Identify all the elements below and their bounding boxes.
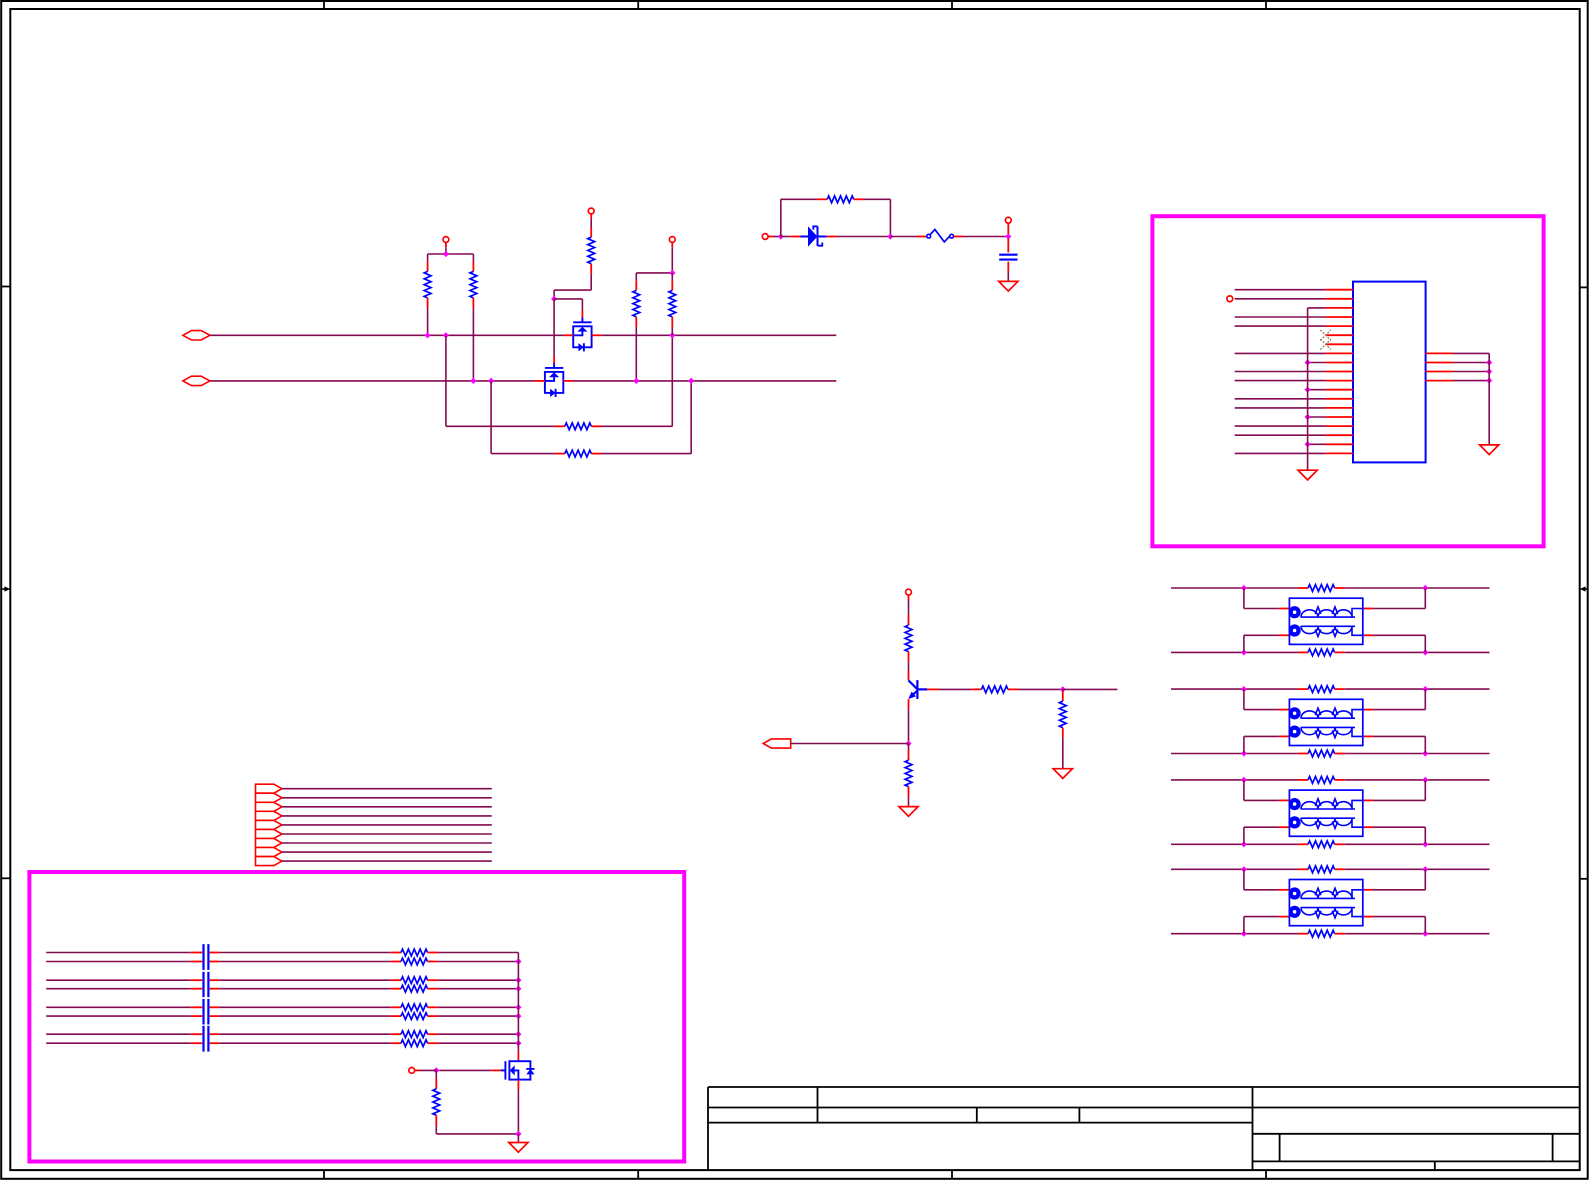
node choke1 TR <box>1422 585 1428 591</box>
power pin J4 <box>409 1068 415 1074</box>
pin 8 <box>1326 352 1353 354</box>
gnd bus vertical <box>1307 308 1309 470</box>
power pin VCC3 <box>669 237 675 243</box>
capacitor C8 leads <box>191 1033 202 1035</box>
wire R3 top lead <box>635 273 637 280</box>
wire to Rc <box>908 600 910 615</box>
pin 3 <box>1326 307 1353 309</box>
resistor RW7 <box>391 1033 401 1035</box>
resistor RW4 <box>391 988 401 990</box>
wire pin 14 <box>1235 407 1326 409</box>
wire H6 <box>282 833 492 835</box>
wire choke2 right top branch <box>1363 709 1373 711</box>
wire zener to node2 <box>837 236 891 238</box>
wire bypass A bottom right <box>602 425 673 427</box>
inductor T2 body <box>1289 699 1362 745</box>
resistor choke4 bottom <box>1298 933 1308 935</box>
inductor T4 bottom winding <box>1289 913 1295 916</box>
wire Rg to source line <box>435 1126 437 1134</box>
wire W8 middle <box>219 1042 391 1044</box>
ground G4 <box>899 807 918 817</box>
resistor choke2 top <box>1298 688 1308 690</box>
pin 2 <box>1326 298 1353 300</box>
wire R1 top lead <box>427 254 429 261</box>
wire choke1 right top branch <box>1363 608 1373 610</box>
wire pin 8 <box>1235 352 1326 354</box>
wire pin 12 to gnd bus <box>1308 389 1326 391</box>
wire choke2 left top branch <box>1243 689 1245 710</box>
node emitter <box>905 740 911 746</box>
wire W6 right <box>438 1015 519 1017</box>
pin R4 <box>1426 380 1453 382</box>
node choke3 TR <box>1422 777 1428 783</box>
wire R3 bottom lead <box>635 327 637 381</box>
inductor T3 body <box>1289 790 1362 836</box>
node choke1 TL <box>1241 585 1247 591</box>
wire node right <box>1063 688 1118 690</box>
resistor RW8 <box>391 1042 401 1044</box>
wire pin 9 to gnd bus <box>1308 362 1326 364</box>
node W3 <box>515 977 521 983</box>
capacitor pair 3 plates <box>202 999 204 1025</box>
wire Rc to collector <box>908 662 910 671</box>
pin 4 <box>1326 316 1353 318</box>
wire gate to Q1 <box>554 298 582 300</box>
node W7 <box>515 1031 521 1037</box>
node bypassA left <box>443 332 449 338</box>
wire R5 top <box>590 219 592 227</box>
wire Rb to node <box>1018 688 1063 690</box>
wire pin 2 <box>1235 298 1326 300</box>
resistor Rc <box>908 615 910 625</box>
node bypassA right <box>669 332 675 338</box>
wire emitter <box>908 699 910 709</box>
wire bus1 right segment <box>601 334 836 336</box>
wire pullup rail 2 <box>636 272 672 274</box>
wire VCC1 stub <box>445 247 447 254</box>
node choke2 BR <box>1422 750 1428 756</box>
node choke1 BL <box>1241 649 1247 655</box>
pin 6 (NC) <box>1326 334 1353 336</box>
node W2 <box>515 958 521 964</box>
wire R2 bottom lead <box>472 308 474 381</box>
node choke2 TL <box>1241 686 1247 692</box>
capacitor C5 leads <box>191 988 202 990</box>
resistor Rb <box>971 688 981 690</box>
wire W5 right <box>438 1006 519 1008</box>
ground G5 <box>1053 769 1072 779</box>
transistor Q1 <box>573 318 591 352</box>
wire W2 left <box>46 961 191 963</box>
wire choke3 left top branch <box>1243 780 1245 801</box>
port H4 <box>256 811 282 820</box>
ground G6 <box>509 1143 528 1153</box>
wire pin 5 <box>1235 325 1326 327</box>
resistor choke2 bottom <box>1298 753 1308 755</box>
resistor RW3 <box>391 979 401 981</box>
resistor R5 <box>590 227 592 237</box>
wire W3 left <box>46 979 191 981</box>
wire W1 left <box>46 952 191 954</box>
resistor R7 (bypass A) <box>555 425 565 427</box>
wire node down <box>435 1070 437 1078</box>
wire emitter to Re <box>908 744 910 751</box>
zone tick left lower <box>1 877 10 879</box>
wire choke3 right bottom branch <box>1363 826 1373 828</box>
port H3 <box>256 802 282 811</box>
power pin J1 <box>762 234 768 240</box>
zone tick bottom 1 <box>323 1170 325 1179</box>
capacitor pair 1 plates <box>202 944 204 970</box>
port H2 <box>256 793 282 802</box>
transistor Q2 <box>545 363 563 397</box>
wire Re to ground <box>908 797 910 807</box>
pin 17 <box>1326 434 1353 436</box>
node rail1 <box>443 251 449 257</box>
wire source to ground <box>517 1134 519 1143</box>
node Z3 <box>1005 233 1011 239</box>
wire choke2 top line <box>1171 688 1298 690</box>
pin 2 input circle <box>1227 296 1233 302</box>
inductor T1 top winding <box>1289 609 1295 612</box>
zone tick top 2 <box>637 1 639 9</box>
resistor choke1 bottom <box>1298 651 1308 653</box>
node choke2 TR <box>1422 686 1428 692</box>
ground G2 <box>1298 470 1317 480</box>
wire pin 18 to gnd bus <box>1308 443 1326 445</box>
capacitor C9 leads <box>191 1042 202 1044</box>
wire bypass A right vertical <box>671 335 673 426</box>
wire W6 middle <box>219 1015 391 1017</box>
node choke4 TR <box>1422 866 1428 872</box>
pin 11 <box>1326 380 1353 382</box>
resistor R6 <box>817 198 827 200</box>
wire W3 middle <box>219 979 391 981</box>
node choke1 BR <box>1422 649 1428 655</box>
zone arrow left <box>1 588 5 590</box>
resistor choke3 top <box>1298 779 1308 781</box>
resistor RW2 <box>391 961 401 963</box>
wire W4 middle <box>219 988 391 990</box>
node choke3 BR <box>1422 841 1428 847</box>
pin 10 <box>1326 371 1353 373</box>
wire C1 to ground <box>1007 271 1009 281</box>
port H5 <box>256 820 282 829</box>
wire choke3 top line <box>1171 779 1298 781</box>
wire pin 10 <box>1235 371 1326 373</box>
wire node1 to zener <box>781 236 790 238</box>
wire pin R3 <box>1453 371 1489 373</box>
wire choke3 right top branch <box>1363 799 1373 801</box>
wire bypass A left vertical <box>445 335 447 426</box>
inductor T4 top winding <box>1289 890 1295 893</box>
inductor T1 bottom winding <box>1289 632 1295 635</box>
wire pin 4 <box>1235 316 1326 318</box>
wire gate <box>439 1069 491 1071</box>
wire W7 left <box>46 1033 191 1035</box>
power pin J3 <box>906 589 912 595</box>
pin 14 <box>1326 407 1353 409</box>
IC U1 body <box>1353 282 1426 463</box>
wire pin 19 <box>1235 452 1326 454</box>
node W4 <box>515 986 521 992</box>
wire W4 left <box>46 988 191 990</box>
pin 13 <box>1326 398 1353 400</box>
wire choke2 left bottom branch <box>1243 736 1245 753</box>
gate stub Q3 <box>491 1069 500 1071</box>
zone tick top 4 <box>1265 1 1267 9</box>
wire W2 middle <box>219 961 391 963</box>
zone tick right upper <box>1580 286 1588 288</box>
wire pin 17 <box>1235 434 1326 436</box>
wire node down <box>1062 689 1064 691</box>
wire bypass A bottom left <box>446 425 555 427</box>
resistor Re <box>908 750 910 760</box>
wire choke1 bottom line <box>1171 651 1298 653</box>
resistor RW5 <box>391 1006 401 1008</box>
wire W8 left <box>46 1042 191 1044</box>
magenta box top right <box>1152 216 1543 546</box>
wire bus2 right segment <box>574 380 837 382</box>
zone tick right lower <box>1580 878 1588 880</box>
inductor T4 body <box>1289 880 1362 926</box>
inductor T3 bottom winding <box>1289 824 1295 827</box>
capacitor pair 2 plates <box>202 972 204 997</box>
wire choke4 left bottom branch <box>1243 917 1245 934</box>
wire bypass B right vertical <box>690 381 692 454</box>
pin 15 <box>1326 416 1353 418</box>
wire choke4 left top branch <box>1243 869 1245 890</box>
wire pin R1 <box>1453 352 1489 354</box>
wire R4 top lead <box>671 273 673 280</box>
wire pin R4 <box>1453 380 1489 382</box>
node choke4 BL <box>1241 931 1247 937</box>
resistor choke1 top <box>1298 587 1308 589</box>
ground G1 <box>999 281 1018 291</box>
wire node2 to fuse <box>890 236 916 238</box>
wire R5 bottom to gate node <box>590 274 592 290</box>
wire R2 top lead <box>472 254 474 261</box>
wire W4 right <box>438 988 519 990</box>
capacitor C4 leads <box>191 979 202 981</box>
power pin VCC1 <box>443 237 449 243</box>
node choke2 BL <box>1241 750 1247 756</box>
port P1 (bus1 left) <box>183 331 210 340</box>
wire choke1 left bottom branch <box>1243 635 1245 652</box>
pin 7 (NC) <box>1326 343 1353 345</box>
wire W2 right <box>438 961 519 963</box>
pin R2 <box>1426 362 1453 364</box>
resistor R8 (bypass B) <box>555 453 565 455</box>
port H6 <box>256 829 282 838</box>
wire choke1 right bottom branch <box>1363 634 1373 636</box>
capacitor C3 leads <box>191 961 202 963</box>
wire pin 3 to gnd bus <box>1308 307 1326 309</box>
wire pullup rail 1 <box>428 253 474 255</box>
port H1 <box>256 784 282 793</box>
wire gate to Q2 <box>553 299 555 356</box>
fuse F1 <box>917 236 927 238</box>
zone tick left upper <box>1 286 10 288</box>
zone tick top 1 <box>323 1 325 9</box>
wire W5 middle <box>219 1006 391 1008</box>
inductor T3 top winding <box>1289 800 1295 803</box>
transistor Q3 <box>501 1061 535 1079</box>
wire R4 bottom lead <box>671 327 673 335</box>
wire H7 <box>282 842 492 844</box>
zone arrow right <box>1585 588 1588 590</box>
node gate Q3 <box>433 1067 439 1073</box>
wire bus1 left segment <box>210 334 564 336</box>
wire R1 bottom lead <box>427 308 429 335</box>
diode D1 (zener) <box>790 236 800 238</box>
wire H5 <box>282 824 492 826</box>
resistor R3 <box>635 280 637 290</box>
wire choke2 bottom line <box>1171 753 1298 755</box>
pin R1 <box>1426 352 1453 354</box>
wire pin R2 <box>1453 362 1489 364</box>
power pin VCC2 (R5 top) <box>588 208 594 214</box>
node rail2 <box>669 270 675 276</box>
wire H2 <box>282 797 492 799</box>
resistor RW6 <box>391 1015 401 1017</box>
port H9 <box>256 857 282 866</box>
wire pin 11 <box>1235 380 1326 382</box>
wire choke4 top line <box>1171 868 1298 870</box>
wire choke2 right bottom branch <box>1363 735 1373 737</box>
wire bus2 left segment <box>210 380 535 382</box>
zone tick top 3 <box>951 1 953 9</box>
resistor R2 <box>472 261 474 271</box>
node R3-bus2 <box>633 378 639 384</box>
inductor T1 body <box>1289 598 1362 644</box>
wire rail top right <box>864 198 891 200</box>
wire to node1 <box>773 236 781 238</box>
wire W7 middle <box>219 1033 391 1035</box>
zone tick bottom 2 <box>637 1170 639 1179</box>
node Z2 <box>887 233 893 239</box>
node source <box>515 1131 521 1137</box>
inductor T2 bottom winding <box>1289 733 1295 736</box>
wire W7 right <box>438 1033 519 1035</box>
wire choke1 top line <box>1171 587 1298 589</box>
wire pin 1 <box>1235 289 1326 291</box>
wire W6 left <box>46 1015 191 1017</box>
wire right gnd vertical <box>1488 353 1490 445</box>
capacitor C1 <box>1007 239 1009 253</box>
node base divider <box>1060 686 1066 692</box>
node gate <box>551 296 557 302</box>
capacitor C6 leads <box>191 1006 202 1008</box>
ground G3 <box>1480 445 1499 455</box>
pin 18 <box>1326 443 1353 445</box>
wire rail up left <box>780 199 782 236</box>
title block <box>708 1087 1580 1170</box>
wire H1 <box>282 788 492 790</box>
pin 19 <box>1326 452 1353 454</box>
port H7 <box>256 839 282 848</box>
base red stub <box>927 688 939 690</box>
wire rail down right <box>889 199 891 236</box>
wire pin 16 <box>1235 425 1326 427</box>
wire H4 <box>282 815 492 817</box>
node Z1 <box>778 233 784 239</box>
port P3 <box>763 739 791 748</box>
node choke4 BR <box>1422 931 1428 937</box>
wire bypass B bottom left <box>491 453 554 455</box>
wire base <box>939 688 972 690</box>
wire choke4 right bottom branch <box>1363 916 1373 918</box>
wire J4 to node <box>420 1069 437 1071</box>
node W5 <box>515 1004 521 1010</box>
zone tick bottom 4 <box>1265 1170 1267 1179</box>
transistor Q4 (NPN) <box>908 671 910 680</box>
wire VCC3 stub <box>671 247 673 273</box>
wire port to emitter <box>791 743 909 745</box>
pin R3 <box>1426 371 1453 373</box>
node bypassB right <box>688 378 694 384</box>
wire H9 <box>282 860 492 862</box>
capacitor C7 leads <box>191 1015 202 1017</box>
resistor R4 <box>671 280 673 290</box>
pin 16 <box>1326 425 1353 427</box>
node R2-bus2 <box>470 378 476 384</box>
zone tick bottom 3 <box>951 1170 953 1179</box>
power pin J2 <box>1005 217 1011 223</box>
wire W1 right <box>438 952 519 954</box>
node choke3 BL <box>1241 841 1247 847</box>
wire W3 right <box>438 979 519 981</box>
node W8 <box>515 1040 521 1046</box>
port P2 (bus2 left) <box>183 376 210 385</box>
resistor choke3 bottom <box>1298 843 1308 845</box>
wire bypass B bottom right <box>602 453 692 455</box>
wire fuse to node3 <box>963 236 1008 238</box>
resistor choke4 top <box>1298 868 1308 870</box>
resistor RW1 <box>391 952 401 954</box>
wire choke4 right top branch <box>1363 889 1373 891</box>
pin 1 <box>1326 289 1353 291</box>
pin 12 <box>1326 389 1353 391</box>
node choke4 TL <box>1241 866 1247 872</box>
resistor Rg <box>435 1079 437 1089</box>
wire W5 left <box>46 1006 191 1008</box>
wire choke4 bottom line <box>1171 933 1298 935</box>
node W6 <box>515 1013 521 1019</box>
pin 9 <box>1326 362 1353 364</box>
wire W8 right <box>438 1042 519 1044</box>
capacitor C2 leads <box>191 952 202 954</box>
wire choke1 left top branch <box>1243 588 1245 609</box>
wire H8 <box>282 851 492 853</box>
capacitor pair 4 plates <box>202 1026 204 1052</box>
wire Q3 source <box>517 1080 519 1090</box>
node R1-bus1 <box>425 332 431 338</box>
wire rail top left <box>781 198 817 200</box>
wire pin 13 <box>1235 398 1326 400</box>
magenta box bottom left <box>29 872 684 1162</box>
wire choke3 left bottom branch <box>1243 827 1245 844</box>
resistor R1 <box>427 261 429 271</box>
wire drain bus vertical <box>517 953 519 1052</box>
inductor T2 top winding <box>1289 710 1295 713</box>
wire pin 15 to gnd bus <box>1308 416 1326 418</box>
wire W1 middle <box>219 952 391 954</box>
wire H3 <box>282 806 492 808</box>
pin 5 <box>1326 325 1353 327</box>
wire bypass B left vertical <box>490 381 492 454</box>
wire choke3 bottom line <box>1171 843 1298 845</box>
